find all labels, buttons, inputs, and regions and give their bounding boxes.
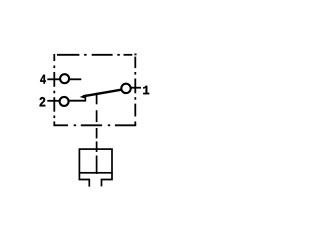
wire terminal 2 inner stub bbox=[69, 100, 86, 102]
label 4 bbox=[40, 75, 46, 84]
label 1 bbox=[143, 86, 149, 94]
wire terminal 1 lead bbox=[130, 87, 141, 89]
enclosure dash-dot box: bottom edge bbox=[54, 124, 136, 126]
connector housing rectangle bbox=[79, 149, 112, 173]
connector right flange and pin bbox=[102, 173, 113, 187]
connector left flange and pin bbox=[79, 173, 89, 187]
switch lever (movable contact) bbox=[83, 90, 121, 97]
contact circle terminal 1 bbox=[121, 84, 130, 93]
enclosure dash-dot box: right edge bbox=[134, 57, 136, 126]
enclosure dash-dot box: left edge bbox=[53, 54, 55, 126]
enclosure dash-dot box: top edge bbox=[57, 53, 137, 55]
contact circle terminal 4 bbox=[60, 74, 69, 83]
wire terminal 4 lead bbox=[47, 78, 60, 80]
contact circle terminal 2 bbox=[60, 97, 69, 106]
wire terminal 4 inner stub bbox=[69, 78, 81, 80]
wire terminal 2 lead bbox=[47, 100, 59, 102]
arrowhead on lever tip bbox=[80, 94, 87, 98]
label 2 bbox=[40, 97, 46, 106]
wire contact seat riser at end of terminal 2 stub bbox=[84, 97, 86, 102]
actuator linkage dashed line bbox=[96, 93, 98, 174]
